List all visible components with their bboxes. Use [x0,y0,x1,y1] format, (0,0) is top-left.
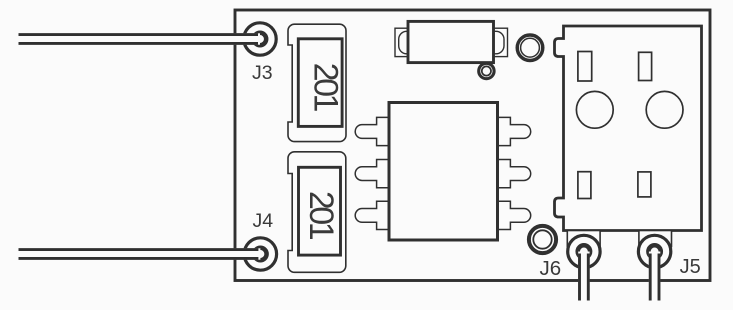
svg-text:J5: J5 [680,256,701,278]
op-amp U1 pin 6 [497,117,531,145]
op-amp U1 pin 2 [355,160,390,188]
pad J3 outer ring [244,23,276,55]
pad J3 inner ring [254,33,266,45]
relay K1 outline [555,26,702,231]
wire to J4 [19,248,261,259]
svg-text:201: 201 [302,191,340,240]
diode D1 body [408,21,494,62]
pad J4 inner ring [254,248,266,260]
op-amp U1 pin 5 [497,160,531,188]
relay K1 hole right [646,91,683,128]
op-amp U1 pin 3 [355,201,390,229]
pad J5 inner ring [648,245,660,257]
wire from J6 [578,252,589,302]
board outline [235,10,710,281]
pad J5 outer ring [638,235,670,267]
relay K1 pad bottom-right [638,172,651,197]
relay K1 pad top-right [639,52,652,80]
relay K1 hole left [576,91,613,128]
mounting hole H1 [517,35,543,61]
resistor R1 body outline (201) [288,24,346,141]
relay K1 leg to J5 [639,231,672,247]
pad J6 inner ring [578,245,590,257]
svg-text:201: 201 [307,63,345,112]
wire from J5 [649,252,660,302]
diode D1 left pad [395,28,415,56]
diode D1 right pad [488,28,508,56]
via near D1 [479,63,494,78]
resistor R2 inner pad rect [299,167,341,255]
svg-text:J3: J3 [252,62,273,84]
relay K1 leg to J6 [567,231,600,247]
pad J6 outer ring [568,235,600,267]
via near J6 [529,226,556,253]
resistor R2 body outline (201) [288,152,346,272]
relay K1 pad top-left [578,52,592,82]
op-amp U1 body [389,103,498,241]
op-amp U1 pin 1 [355,117,390,145]
relay K1 pad bottom-left [578,172,591,199]
svg-text:J4: J4 [253,210,274,232]
svg-text:J6: J6 [540,257,562,280]
wire to J3 [19,33,261,44]
op-amp U1 pin 4 [497,201,531,229]
resistor R1 inner pad rect [298,39,342,127]
pad J4 outer ring [244,238,276,270]
